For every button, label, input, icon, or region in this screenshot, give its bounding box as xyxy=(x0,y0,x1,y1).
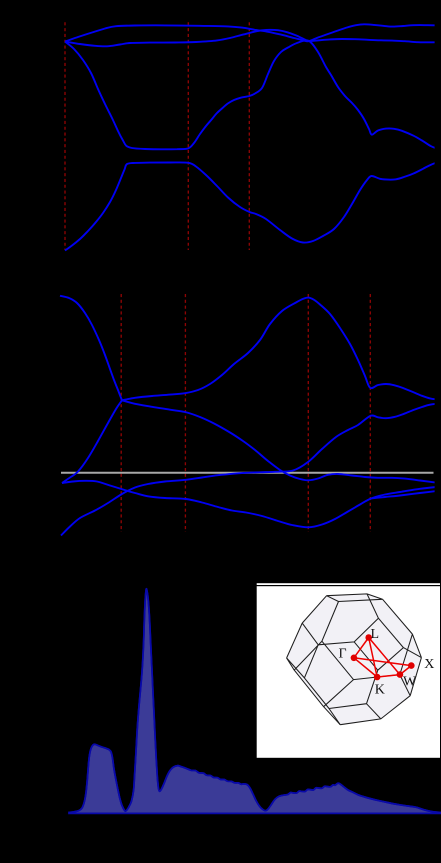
wire p2 steep acoustic riser xyxy=(62,400,122,483)
node Gamma point dot xyxy=(351,655,358,662)
wire dos outline xyxy=(69,589,441,813)
wire p1 second optical branch T2 xyxy=(65,30,436,47)
svg-text:L: L xyxy=(371,627,380,642)
wire inset top white line xyxy=(257,583,440,585)
svg-text:K: K xyxy=(375,683,385,698)
wire p2 negative shallow band xyxy=(62,481,441,528)
wire p1 top optical branch T1 xyxy=(65,24,436,41)
node panel1 band structure xyxy=(65,22,441,250)
svg-text:W: W xyxy=(403,674,417,689)
node K point dot xyxy=(374,674,381,681)
wire p2 top optical branch xyxy=(60,296,122,401)
svg-text:X: X xyxy=(424,657,434,672)
node inset white background xyxy=(257,586,440,758)
node brillouin zone silhouette fill xyxy=(287,594,422,725)
wire k-path red lines xyxy=(354,638,411,678)
svg-text:Γ: Γ xyxy=(339,646,347,661)
node panel2 band structure xyxy=(60,294,441,536)
node DOS panel xyxy=(69,589,441,814)
node W point dot xyxy=(397,671,404,678)
node L point dot xyxy=(365,634,372,641)
wire p2 negative band split branch xyxy=(371,491,441,499)
wire p2 lower branch from node xyxy=(122,400,441,483)
wire p1 main branch with dome xyxy=(65,40,441,150)
node inset box xyxy=(257,583,440,758)
wire dashed symmetry lines panel2 xyxy=(121,294,370,532)
node X point dot xyxy=(408,662,415,669)
wire bz back edges xyxy=(287,594,422,725)
wire p2 upper branch from node xyxy=(122,298,441,401)
wire p2 soft mode branch xyxy=(61,403,441,535)
wire zero frequency gray line xyxy=(61,472,434,474)
node dos filled area xyxy=(69,589,441,814)
wire bz front edges xyxy=(287,594,422,725)
wire p1 bottom acoustic branch xyxy=(65,161,441,251)
wire dashed symmetry lines panel1 xyxy=(65,22,249,250)
